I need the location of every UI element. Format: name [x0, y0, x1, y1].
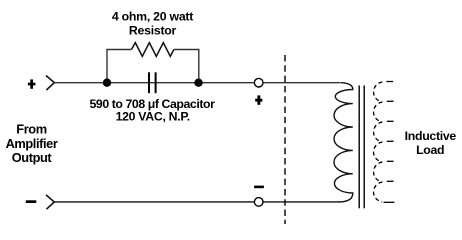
svg-text:Resistor: Resistor — [129, 24, 177, 38]
label: 4 ohm, 20 watt Resistor — [112, 10, 193, 38]
minus label at terminal — [254, 186, 264, 189]
minus polarity label (amplifier side, bottom) — [26, 200, 37, 203]
capacitor plates — [149, 72, 156, 93]
label: From Amplifier Output — [6, 122, 58, 166]
arrow head top wire — [46, 76, 54, 91]
svg-text:Inductive: Inductive — [405, 129, 457, 143]
svg-text:Output: Output — [12, 150, 53, 165]
terminal circle bottom (-) — [254, 198, 263, 207]
secondary winding (dashed, inductive load) — [374, 82, 395, 203]
plus polarity label (amplifier side, top) — [28, 79, 36, 88]
svg-text:120 VAC, N.P.: 120 VAC, N.P. — [116, 110, 190, 124]
svg-text:4 ohm, 20 watt: 4 ohm, 20 watt — [112, 10, 193, 24]
svg-text:Amplifier: Amplifier — [6, 136, 58, 151]
terminal circle top (+) — [254, 78, 263, 87]
resistor zigzag — [132, 43, 174, 57]
transformer core lines — [359, 85, 364, 208]
plus label at terminal — [255, 95, 262, 104]
arrow head bottom wire — [46, 195, 54, 209]
label: 590 to 708 uf Capacitor / 120 VAC, N.P. — [90, 97, 216, 123]
label: Inductive Load — [405, 129, 457, 157]
wire: top horizontal from arrow to transformer — [54, 82, 340, 84]
svg-text:Load: Load — [416, 143, 444, 157]
wire: bottom horizontal from arrow to transformer — [54, 201, 340, 203]
junction node right — [194, 79, 202, 87]
wire: resistor branch (left riser, top rail, right riser) — [107, 50, 199, 83]
junction node left — [103, 79, 111, 87]
transformer primary winding — [334, 83, 353, 202]
svg-text:From: From — [16, 122, 46, 137]
dashed boundary line — [284, 55, 286, 224]
